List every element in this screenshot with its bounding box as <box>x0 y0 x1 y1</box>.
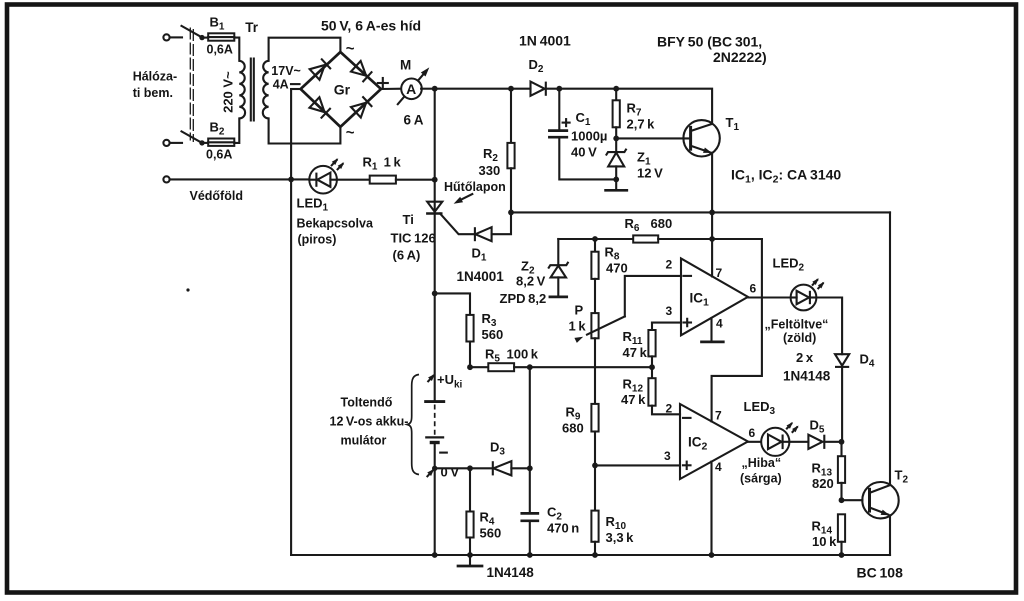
junction dot C1 top <box>556 86 562 92</box>
svg-text:(zöld): (zöld) <box>783 331 816 345</box>
svg-text:Bekapcsolva: Bekapcsolva <box>297 217 374 231</box>
main positive rail <box>511 211 890 213</box>
op-amp IC1 <box>681 259 748 336</box>
junction dot battery bottom <box>432 552 438 558</box>
transistor T2 BC108 <box>862 482 898 518</box>
svg-text:6: 6 <box>749 426 756 440</box>
svg-text:Gr: Gr <box>334 82 351 98</box>
battery minus sign <box>440 452 447 454</box>
label 2x 1N4148 <box>783 350 831 384</box>
wire IC2 output to LED3 <box>748 441 767 443</box>
wire R1 to Ti anode column <box>396 179 435 181</box>
fuse B1 <box>208 33 234 40</box>
svg-text:1N4148: 1N4148 <box>783 369 831 384</box>
svg-text:~: ~ <box>346 125 355 142</box>
wire D3 to C2 column <box>511 467 529 469</box>
svg-text:6: 6 <box>750 282 757 296</box>
wire ammeter to node A <box>421 88 435 90</box>
svg-text:BC 108: BC 108 <box>857 565 904 581</box>
wire C1 top lead <box>558 89 560 131</box>
wire secondary bottom to bridge ~ bottom <box>269 118 341 143</box>
op-amp IC2 <box>680 404 748 479</box>
diode D4 (points down) <box>835 354 849 367</box>
wire left column (- rail) down to bottom rail <box>290 89 292 555</box>
label R6 680 <box>625 216 673 234</box>
IC1 pin4 ground stub <box>702 318 724 342</box>
bridge diode arm top-left <box>310 59 331 80</box>
svg-text:6 A: 6 A <box>404 113 424 128</box>
junction dot left column / earth line <box>288 177 294 183</box>
label Toltendo 12V-os akkumulator <box>330 396 409 448</box>
transformer Tr secondary winding 17V <box>263 61 269 119</box>
wire to fuse B2 <box>202 142 208 144</box>
svg-text:12 V-os akku-: 12 V-os akku- <box>330 415 409 429</box>
svg-text:Toltendő: Toltendő <box>341 396 393 410</box>
resistor R4 <box>466 468 473 555</box>
svg-text:Hálóza-: Hálóza- <box>133 70 177 84</box>
+Uki connection arrow <box>428 372 437 381</box>
svg-text:Hűtőlapon: Hűtőlapon <box>444 180 506 194</box>
IC2 plus sign pin3 <box>683 462 691 469</box>
svg-text:4A: 4A <box>273 78 289 92</box>
junction dot R2 top <box>508 86 514 92</box>
wire fuse B2 to transformer primary bottom <box>234 118 239 142</box>
wire R6 rail right section to IC2 supply corner <box>658 238 762 240</box>
resistor R11 <box>648 323 655 379</box>
label Hiba (sarga) <box>740 456 782 486</box>
resistor R1 <box>370 176 396 184</box>
ground bar below Z2 <box>550 296 567 299</box>
junction dot C2 bottom <box>527 552 533 558</box>
terminal: mains input top <box>163 34 182 40</box>
battery top plate (+) <box>424 400 445 403</box>
ammeter M needle <box>398 71 426 104</box>
svg-text:2: 2 <box>666 258 673 272</box>
LED2 (points right) <box>791 285 817 311</box>
IC2 minus sign pin2 <box>683 417 691 419</box>
svg-text:3: 3 <box>664 449 671 463</box>
junction dot IC2 pin4 / bottom rail <box>709 552 715 558</box>
wire D1 to main rail start <box>492 212 511 234</box>
wire rail corner down right side to T2 collector <box>889 212 891 485</box>
resistor R9 <box>591 404 598 466</box>
resistor R6 <box>633 235 658 242</box>
svg-text:0 V: 0 V <box>441 465 460 480</box>
wire IC2 pin3 row <box>595 464 680 466</box>
junction dot Z1/C1 ground node <box>613 177 619 183</box>
wire R5 left lead <box>470 366 488 368</box>
svg-text:50 V, 6 A-es híd: 50 V, 6 A-es híd <box>321 18 421 34</box>
bridge diode arm bottom-left <box>309 97 330 118</box>
wire battery column (Uki) <box>434 293 436 401</box>
wire R5 to R11/R12 node <box>514 366 652 368</box>
bridge diode arm top-right <box>351 61 372 82</box>
junction dot R3/R5 node <box>467 364 473 370</box>
svg-text:47 k: 47 k <box>621 392 646 407</box>
svg-text:47 k: 47 k <box>623 345 648 360</box>
wire bridge - output to left column <box>291 88 301 90</box>
svg-text:Védőföld: Védőföld <box>190 189 243 203</box>
C1 polarity plus sign <box>563 119 570 126</box>
switch blade top <box>182 26 203 38</box>
svg-text:40 V: 40 V <box>571 145 597 160</box>
resistor R10 <box>591 465 598 555</box>
svg-text:ZPD 8,2: ZPD 8,2 <box>500 291 547 306</box>
junction dot 0V node <box>432 466 437 471</box>
IC1 minus sign pin2 <box>684 275 692 277</box>
wire D5 to R13 node <box>824 441 841 443</box>
svg-text:470 n: 470 n <box>547 521 579 536</box>
junction dot R3 branch <box>432 291 438 297</box>
svg-text:M: M <box>400 58 411 73</box>
diode D5 (points right) <box>808 435 824 449</box>
svg-text:3: 3 <box>666 304 673 318</box>
wire C1 bottom lead to ground node <box>559 137 616 179</box>
svg-text:560: 560 <box>480 526 502 541</box>
svg-text:560: 560 <box>482 327 504 342</box>
wire secondary top to bridge ~ top <box>269 38 341 61</box>
svg-text:1000µ: 1000µ <box>571 129 607 144</box>
ground symbol below Z1 <box>606 179 627 190</box>
junction pivot dot bottom <box>199 140 204 145</box>
svg-text:3,3 k: 3,3 k <box>606 530 635 545</box>
transformer Tr primary winding 220V <box>239 61 245 119</box>
ammeter needle arrowhead <box>421 65 432 76</box>
label 17V~ 4A <box>271 64 301 92</box>
junction dot T2 base node <box>839 497 845 503</box>
svg-text:4: 4 <box>715 460 722 474</box>
transistor T1 BFY50 <box>683 120 719 156</box>
svg-text:10 k: 10 k <box>812 534 837 549</box>
svg-text:2: 2 <box>666 402 673 416</box>
0V connection arrow <box>427 467 436 476</box>
diode D1 <box>475 227 492 241</box>
svg-text:100 k: 100 k <box>507 347 539 362</box>
junction dot C2 column top <box>527 364 533 370</box>
svg-text:„Feltöltve“: „Feltöltve“ <box>765 318 829 332</box>
LED2 light arrows <box>812 277 826 289</box>
wire Ti gate to D1 <box>440 214 475 235</box>
label BFY50 BC301 2N2222 <box>657 34 767 66</box>
minus sign at bridge - terminal <box>291 83 300 85</box>
wire to fuse B1 <box>202 37 208 39</box>
wire IC1 pin3 row <box>652 322 681 324</box>
ground symbol below bottom rail <box>458 555 482 566</box>
diode D2 <box>531 82 546 96</box>
diode D3 <box>493 461 512 475</box>
svg-text:2N2222): 2N2222) <box>713 49 767 65</box>
svg-text:2 x: 2 x <box>796 350 814 365</box>
resistor R2 <box>507 89 514 213</box>
zener Z1 <box>606 138 627 179</box>
svg-text:1N 4001: 1N 4001 <box>519 33 571 49</box>
terminal: mains input bottom <box>163 140 182 146</box>
junction dot R10 bottom <box>592 552 598 558</box>
svg-text:1N4148: 1N4148 <box>487 565 535 580</box>
switch blade bottom <box>182 131 203 143</box>
junction dot R7 bottom / T1 base <box>613 136 619 142</box>
junction dot R14 bottom <box>839 552 845 558</box>
junction dot top of Ti column <box>432 86 438 92</box>
wire T1 base row <box>616 137 690 139</box>
svg-text:470: 470 <box>606 261 628 276</box>
wire IC1 pin7 column <box>711 212 713 276</box>
IC2 pin4 stub to bottom rail <box>710 462 712 555</box>
svg-text:mulátor: mulátor <box>341 434 387 448</box>
svg-text:220 V~: 220 V~ <box>221 71 236 113</box>
LED1 light arrows <box>332 157 346 170</box>
svg-text:ti bem.: ti bem. <box>133 86 173 100</box>
svg-text:(sárga): (sárga) <box>740 472 782 486</box>
stray ink dot <box>186 288 189 291</box>
wire D2 to T1 collector corner <box>546 89 712 124</box>
junction dot R7 top <box>613 86 619 92</box>
wire bridge + output to ammeter <box>381 88 402 90</box>
junction dot main rail left end <box>508 210 514 216</box>
fuse B2 <box>208 139 234 146</box>
junction dot D4/D5/R13 node <box>839 439 845 445</box>
wire R6 rail left section <box>558 238 633 240</box>
junction pivot dot top <box>199 35 204 40</box>
resistor R5 <box>488 363 514 371</box>
battery dashed middle <box>434 405 436 435</box>
svg-text:„Hiba“: „Hiba“ <box>742 456 782 470</box>
wire LED1 to R1 <box>337 179 370 181</box>
plus sign at bridge + terminal <box>378 78 388 88</box>
battery lower short plate (-) <box>430 441 440 444</box>
junction dot R8 top <box>592 236 598 242</box>
wire C2 column <box>529 367 531 513</box>
junction dot Ti anode node <box>432 177 438 183</box>
svg-text:~: ~ <box>346 41 355 58</box>
potentiometer P 1k <box>574 276 681 343</box>
wire fuse B1 to transformer primary top <box>234 38 239 61</box>
ammeter M <box>401 79 422 100</box>
junction dot R9/R10/IC2 pin3 <box>592 463 598 469</box>
wire T1 emitter down to main rail <box>711 153 713 213</box>
resistor R12 <box>648 378 680 414</box>
LED3 (points right) <box>761 428 789 456</box>
junction dot C2 column / D3 <box>527 465 533 471</box>
junction dot R4 top <box>467 465 473 471</box>
capacitor C1 plates <box>549 131 566 138</box>
svg-text:12 V: 12 V <box>637 166 663 181</box>
svg-text:0,6A: 0,6A <box>206 148 232 162</box>
svg-text:680: 680 <box>651 216 673 231</box>
svg-text:BFY 50 (BC 301,: BFY 50 (BC 301, <box>657 34 762 50</box>
brace for battery annotation <box>407 375 419 475</box>
LED1 (points left) <box>309 166 337 194</box>
wire battery to 0V node <box>434 444 436 555</box>
wire node A down through Ti anode <box>434 89 436 214</box>
bottom rail (0V) <box>291 554 890 556</box>
zener Z2 ZPD8,2 <box>548 239 568 297</box>
wire Ti cathode down to R3 node <box>434 215 436 294</box>
svg-text:TIC 126: TIC 126 <box>391 231 436 246</box>
label mains input: Halozati bem. <box>133 70 177 101</box>
svg-text:Tr: Tr <box>245 20 259 35</box>
label Feltoltve (zold) <box>765 318 829 346</box>
battery lower long plate <box>425 436 444 438</box>
resistor R13 <box>838 442 845 500</box>
resistor R8 <box>591 239 598 313</box>
switch mechanical linkage (dashed) <box>190 28 193 143</box>
label Bekapcsolva (piros) <box>297 217 374 247</box>
svg-text:8,2 V: 8,2 V <box>516 274 546 289</box>
capacitor C2 <box>522 513 538 555</box>
junction dot R6 rail / pin7 column <box>709 236 715 242</box>
bridge diode arm bottom-right <box>351 96 372 117</box>
svg-text:(6 A): (6 A) <box>393 248 421 263</box>
junction dot R11/R12 node <box>649 364 655 370</box>
svg-text:Ti: Ti <box>403 212 414 227</box>
svg-text:680: 680 <box>562 421 584 436</box>
label R5 100k <box>485 347 539 365</box>
wire D4 to D5 node <box>841 367 843 442</box>
svg-text:820: 820 <box>812 476 834 491</box>
wire R3 branch from Ti cathode column <box>435 293 470 315</box>
wire T2 emitter to bottom rail <box>889 515 891 555</box>
resistor R14 <box>838 514 845 555</box>
svg-text:1 k: 1 k <box>569 319 587 334</box>
junction dot R4 bottom <box>467 552 473 558</box>
label Hutolapon with arrow <box>444 180 506 206</box>
wire LED3 to D5 <box>789 441 808 443</box>
LED3 light arrows <box>786 420 800 432</box>
junction dot T1 emitter / rail <box>709 210 715 216</box>
wire LED2 to D4 column <box>816 298 842 355</box>
svg-text:1N4001: 1N4001 <box>457 269 505 284</box>
wire T2 base <box>842 499 863 501</box>
terminal: Vedofold earth <box>163 176 169 182</box>
svg-text:4: 4 <box>716 317 723 331</box>
svg-text:7: 7 <box>715 409 722 423</box>
resistor R3 <box>466 315 473 367</box>
resistor R7 <box>613 89 620 139</box>
wire P bottom to R9 <box>594 338 596 404</box>
svg-text:(piros): (piros) <box>298 233 337 247</box>
thyristor Ti TIC126 <box>426 202 442 214</box>
transformer Tr core <box>251 59 254 121</box>
svg-text:P: P <box>575 303 584 318</box>
svg-text:17V~: 17V~ <box>271 64 301 78</box>
svg-text:330: 330 <box>479 163 501 178</box>
IC1 plus sign pin3 <box>684 319 692 326</box>
wire IC1 output to LED2 <box>748 296 791 298</box>
svg-text:2,7 k: 2,7 k <box>627 117 656 132</box>
wire top rail to D2 <box>435 88 531 90</box>
wire earth line to LED1 <box>170 178 313 180</box>
svg-text:0,6A: 0,6A <box>207 43 233 57</box>
wire IC2 supply drop and jog <box>712 239 762 422</box>
svg-text:A: A <box>406 81 416 97</box>
wire 0V node to D3 <box>435 467 493 469</box>
bridge rectifier Gr outline <box>301 52 381 127</box>
